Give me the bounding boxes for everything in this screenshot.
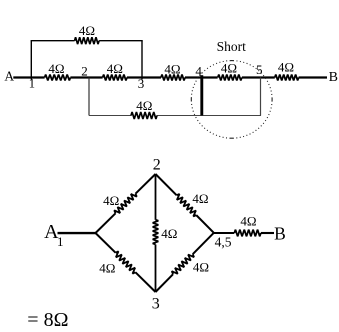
- svg-text:4Ω: 4Ω: [161, 226, 177, 241]
- svg-text:B: B: [274, 224, 286, 244]
- svg-text:= 8Ω: = 8Ω: [27, 309, 68, 331]
- svg-text:4Ω: 4Ω: [164, 62, 180, 77]
- svg-text:4Ω: 4Ω: [278, 60, 294, 75]
- svg-text:4Ω: 4Ω: [79, 23, 95, 38]
- svg-text:4Ω: 4Ω: [48, 61, 64, 76]
- svg-text:4,5: 4,5: [215, 234, 232, 249]
- svg-text:4Ω: 4Ω: [192, 191, 208, 206]
- svg-text:4Ω: 4Ω: [193, 260, 209, 275]
- svg-text:A: A: [4, 69, 14, 84]
- svg-text:3: 3: [138, 76, 145, 91]
- svg-text:4Ω: 4Ω: [107, 61, 123, 76]
- svg-text:4Ω: 4Ω: [99, 261, 115, 276]
- svg-text:2: 2: [81, 64, 88, 79]
- svg-text:Short: Short: [217, 39, 247, 54]
- svg-text:1: 1: [57, 234, 64, 249]
- svg-text:4Ω: 4Ω: [240, 214, 256, 229]
- svg-text:3: 3: [152, 295, 160, 312]
- svg-text:1: 1: [29, 77, 35, 91]
- svg-text:4: 4: [195, 63, 202, 78]
- svg-text:4Ω: 4Ω: [103, 193, 119, 208]
- svg-text:2: 2: [153, 156, 161, 173]
- svg-text:5: 5: [256, 62, 263, 77]
- svg-text:4Ω: 4Ω: [136, 98, 152, 113]
- svg-text:B: B: [329, 70, 338, 85]
- svg-text:4Ω: 4Ω: [221, 61, 237, 76]
